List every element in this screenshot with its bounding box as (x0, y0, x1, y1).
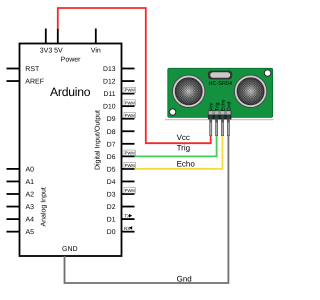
svg-text:D11: D11 (104, 91, 116, 98)
pin D4 (122, 180, 135, 182)
svg-text:RST: RST (25, 66, 40, 73)
label TX marker D1 (124, 214, 132, 219)
header pin 3 (Echo) (221, 119, 223, 136)
PWM box D11 (124, 87, 136, 92)
svg-text:Trig: Trig (177, 143, 190, 152)
svg-text:HC-SR04: HC-SR04 (209, 81, 233, 87)
svg-text:Digital Input/Output: Digital Input/Output (94, 110, 102, 170)
svg-text:Gnd: Gnd (226, 101, 232, 111)
svg-text:A5: A5 (26, 229, 35, 236)
PWM box D3 (124, 188, 136, 193)
pin D9 (122, 118, 135, 120)
svg-text:D6: D6 (107, 154, 116, 161)
svg-text:D12: D12 (103, 79, 116, 86)
svg-text:PWM: PWM (125, 188, 136, 193)
pin D1 (122, 218, 135, 220)
svg-text:D10: D10 (103, 104, 116, 111)
pin D12 (122, 80, 135, 82)
pin A4 (7, 218, 20, 220)
svg-text:A2: A2 (26, 192, 35, 199)
PWM box D6 (124, 150, 136, 155)
svg-text:D5: D5 (107, 166, 116, 173)
svg-text:A1: A1 (26, 179, 35, 186)
label RX marker D0 (124, 226, 132, 231)
svg-text:PWM: PWM (125, 100, 136, 105)
header pin 1 (Vcc) (210, 119, 212, 136)
pin D11 (122, 93, 135, 95)
pin A5 (7, 231, 20, 233)
pin D13 (122, 68, 135, 70)
pin A2 (7, 193, 20, 195)
pin D6 (122, 155, 135, 157)
svg-text:PWM: PWM (125, 150, 136, 155)
PWM box D5 (124, 163, 136, 168)
pin D7 (122, 143, 135, 145)
svg-text:D4: D4 (107, 179, 116, 186)
transducer left (T) (173, 75, 205, 107)
pin RST (7, 68, 20, 70)
header pin 2 (Trig) (216, 119, 218, 136)
pin 3V3 (45, 29, 47, 44)
mounting hole top-right (264, 70, 271, 77)
pin AREF (7, 80, 20, 82)
svg-text:GND: GND (62, 246, 78, 253)
svg-text:D0: D0 (107, 229, 116, 236)
header pin 4 (Gnd) (227, 119, 229, 136)
mounting hole bottom-left (169, 109, 175, 115)
svg-text:PWM: PWM (125, 113, 136, 118)
pin D10 (122, 105, 135, 107)
HC-SR04 sensor board (168, 68, 273, 117)
svg-text:D9: D9 (107, 116, 116, 123)
svg-text:Power: Power (61, 57, 82, 64)
wire D6 to Trig (green) (135, 135, 217, 156)
pin D2 (122, 206, 135, 208)
svg-text:D1: D1 (107, 217, 116, 224)
svg-text:Echo: Echo (177, 160, 196, 169)
svg-text:PWM: PWM (125, 88, 136, 93)
svg-text:D2: D2 (107, 204, 116, 211)
svg-text:D3: D3 (107, 192, 116, 199)
pin A3 (7, 206, 20, 208)
svg-text:Arduino: Arduino (50, 85, 91, 99)
svg-text:RX: RX (124, 226, 130, 231)
svg-text:Vin: Vin (91, 47, 101, 55)
svg-text:3V3: 3V3 (40, 48, 53, 55)
pin A1 (7, 180, 20, 182)
header housing (208, 111, 231, 119)
pin A0 (7, 168, 20, 170)
svg-text:D8: D8 (107, 129, 116, 136)
pin D3 (122, 193, 135, 195)
wire 5V to Vcc (red) (58, 8, 211, 143)
board bottom shadow (165, 119, 274, 121)
crystal oscillator (208, 71, 232, 80)
svg-text:PWM: PWM (125, 163, 136, 168)
PWM box D9 (124, 112, 136, 117)
wire GND to Gnd (gray) (65, 135, 229, 283)
transducer right (R) (234, 75, 266, 107)
svg-text:A4: A4 (26, 217, 35, 224)
svg-text:A0: A0 (26, 166, 35, 173)
pin D8 (122, 130, 135, 132)
svg-text:A3: A3 (26, 204, 35, 211)
pin D0 (122, 231, 135, 233)
wire D5 to Echo (yellow) (135, 135, 223, 169)
pin 5V (57, 29, 59, 44)
PWM box D10 (124, 100, 136, 105)
svg-text:Gnd: Gnd (177, 274, 192, 283)
svg-text:Vcc: Vcc (177, 133, 190, 142)
svg-text:D13: D13 (103, 66, 116, 73)
svg-text:D7: D7 (107, 141, 116, 148)
svg-text:Analog Input: Analog Input (39, 187, 47, 226)
svg-text:AREF: AREF (25, 79, 44, 86)
pin D5 (122, 168, 135, 170)
pin Vin (95, 29, 97, 44)
svg-text:5V: 5V (54, 48, 63, 55)
Arduino board outline (20, 44, 122, 257)
